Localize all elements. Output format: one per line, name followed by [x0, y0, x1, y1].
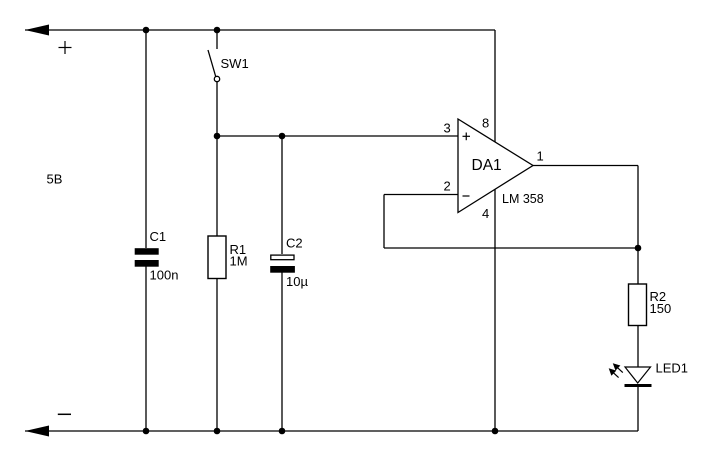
op-amp noninverting input marker + [463, 133, 471, 141]
wire op-amp pin 4 (V-) [494, 190, 496, 432]
pin number 2 [444, 179, 451, 194]
svg-text:C2: C2 [286, 236, 303, 251]
label C1 [150, 229, 167, 244]
wire op-amp pin 2 input [384, 194, 458, 196]
wire R2 to LED1 [637, 326, 639, 367]
capacitor C1 [135, 248, 159, 267]
svg-text:150: 150 [650, 301, 672, 316]
label R2 [650, 289, 667, 304]
svg-text:5B: 5B [47, 172, 63, 187]
svg-text:10µ: 10µ [286, 274, 308, 289]
wire R1 bottom lead [216, 279, 218, 432]
label DA1 [472, 157, 502, 174]
label 1M (R1 value) [230, 254, 248, 269]
junction output / feedback / R2 [635, 245, 642, 252]
junction bottom rail / R1 [214, 428, 221, 435]
wire output vertical to R2 [637, 166, 639, 285]
wire bottom rail [25, 430, 638, 432]
wire LED1 to bottom rail [637, 387, 639, 431]
wire C2 bottom lead [281, 273, 283, 432]
junction SW1 / R1 / pin3 wire [214, 133, 221, 140]
svg-text:100n: 100n [150, 268, 179, 283]
junction bottom rail / op-amp pin 4 [492, 428, 499, 435]
pin number 4 [482, 206, 489, 221]
wire op-amp output pin 1 [533, 165, 638, 167]
pin number 8 [482, 116, 489, 131]
supply arrow - (bottom rail, pointing left) [25, 426, 49, 437]
label 10u (C2 value) [286, 274, 308, 289]
wire top rail [25, 29, 495, 31]
junction bottom rail / C1 [143, 428, 150, 435]
svg-text:C1: C1 [150, 229, 167, 244]
svg-text:4: 4 [482, 206, 489, 221]
wire feedback vertical [383, 195, 385, 249]
label SW1 [221, 56, 249, 71]
capacitor C2 (polarized) [270, 255, 295, 273]
LED1 diode [625, 367, 652, 387]
supply arrow + (top rail, pointing left) [25, 25, 49, 36]
op-amp DA1 triangle [458, 119, 533, 213]
resistor R1 [208, 236, 226, 279]
label - (negative supply) [58, 413, 71, 415]
label LED1 [656, 361, 689, 376]
label LM 358 (part value) [502, 192, 544, 206]
resistor R2 [629, 284, 647, 326]
label 100n (C1 value) [150, 268, 179, 283]
junction pin3 wire / C2 [279, 133, 286, 140]
wire to op-amp pin 3 [217, 135, 458, 137]
op-amp inverting input marker - [463, 195, 470, 197]
svg-text:2: 2 [444, 179, 451, 194]
svg-text:DA1: DA1 [472, 157, 502, 174]
svg-text:3: 3 [444, 121, 451, 136]
svg-text:1M: 1M [230, 254, 248, 269]
label C2 [286, 236, 303, 251]
label 150 (R2 value) [650, 301, 672, 316]
junction top rail / C1 [143, 27, 150, 34]
wire C1 top lead [145, 30, 147, 248]
svg-text:LED1: LED1 [656, 361, 689, 376]
pin number 1 [537, 149, 544, 164]
svg-text:1: 1 [537, 149, 544, 164]
wire op-amp pin 8 (V+) [494, 30, 496, 142]
wire feedback horizontal [384, 247, 638, 249]
label 5B (supply voltage) [47, 172, 63, 187]
junction bottom rail / C2 [279, 428, 286, 435]
pin number 3 [444, 121, 451, 136]
junction top rail / SW1 [214, 27, 221, 34]
svg-text:8: 8 [482, 116, 489, 131]
wire C2 top lead [281, 136, 283, 254]
wire R1 top lead [216, 136, 218, 236]
wire C1 bottom lead [145, 267, 147, 432]
label + (positive supply) [59, 41, 72, 54]
svg-text:SW1: SW1 [221, 56, 249, 71]
svg-text:LM 358: LM 358 [502, 192, 544, 206]
label R1 [230, 242, 247, 257]
switch SW1 [208, 30, 220, 136]
LED1 emission arrows [609, 363, 623, 377]
